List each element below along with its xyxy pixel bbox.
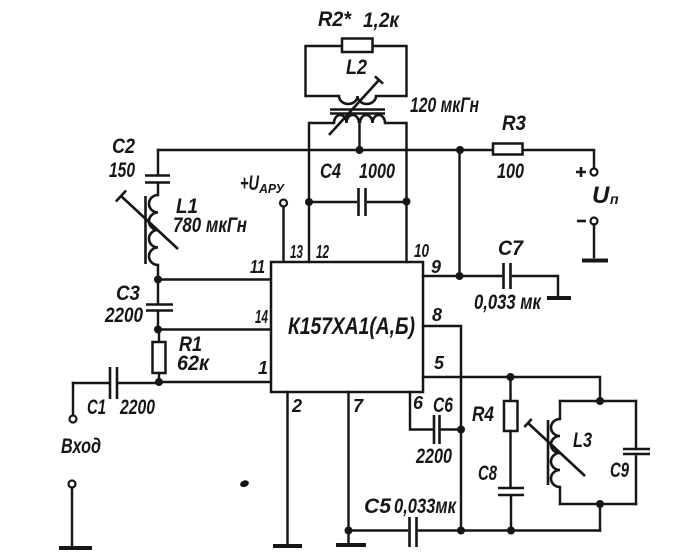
svg-text:C4: C4 xyxy=(320,160,341,183)
svg-text:5: 5 xyxy=(434,353,445,373)
transformer L2 secondary xyxy=(309,94,479,150)
wire pin 7 xyxy=(347,392,349,543)
resistor R2 xyxy=(306,8,407,96)
transformer L2 primary xyxy=(306,56,407,104)
ground pin 2 xyxy=(273,544,302,548)
capacitor C7 xyxy=(460,237,559,314)
svg-text:Вход: Вход xyxy=(61,435,101,458)
node C6 xyxy=(457,426,465,434)
svg-text:АРУ: АРУ xyxy=(258,181,285,196)
wire pin 11 xyxy=(158,278,271,280)
svg-text:C2: C2 xyxy=(112,135,135,158)
svg-text:14: 14 xyxy=(255,307,268,327)
svg-text:1000: 1000 xyxy=(359,160,395,183)
wire bus to tank xyxy=(599,504,601,531)
svg-text:C9: C9 xyxy=(610,459,629,482)
svg-text:8: 8 xyxy=(432,305,442,325)
svg-text:9: 9 xyxy=(431,257,441,277)
wire tank top xyxy=(560,400,636,402)
wire pin 8 xyxy=(423,326,461,531)
transformer adjust arrow xyxy=(329,76,383,135)
wire pin 6 stub xyxy=(410,392,432,430)
capacitor C1 xyxy=(73,367,159,419)
svg-text:R2*: R2* xyxy=(318,8,352,31)
capacitor C3 xyxy=(104,280,173,330)
svg-text:2200: 2200 xyxy=(104,304,143,327)
terminal +Uару xyxy=(240,172,287,262)
node C4 right xyxy=(403,198,411,206)
svg-text:2200: 2200 xyxy=(119,396,155,419)
printing speck xyxy=(239,479,250,488)
svg-text:12: 12 xyxy=(316,242,329,262)
svg-text:0,033мк: 0,033мк xyxy=(394,495,457,518)
node pin 7 / C5 xyxy=(345,527,353,535)
input terminal Вход xyxy=(61,383,101,458)
wire pin 2 xyxy=(286,392,288,544)
terminal -Uп xyxy=(577,218,598,258)
svg-text:780 мкГн: 780 мкГн xyxy=(173,214,247,237)
terminal +Uп xyxy=(576,167,619,209)
op-amp U1 К157ХА1 xyxy=(271,262,423,392)
wire pin 10 / C4 right / L2 secondary right xyxy=(405,123,407,262)
inductor L3 xyxy=(524,401,592,504)
resistor R4 xyxy=(472,377,518,487)
svg-text:L3: L3 xyxy=(573,429,592,452)
svg-text:U: U xyxy=(592,182,610,209)
svg-text:C1: C1 xyxy=(87,396,106,419)
wire pin 12 / C4 left / L2 secondary left xyxy=(308,123,310,262)
svg-text:100: 100 xyxy=(497,160,524,183)
capacitor C5 xyxy=(349,495,601,547)
svg-text:C3: C3 xyxy=(116,282,140,305)
svg-text:120 мкГн: 120 мкГн xyxy=(410,94,479,117)
input ground terminal xyxy=(69,481,76,547)
wire pin 5 xyxy=(423,377,600,401)
svg-text:150: 150 xyxy=(109,159,135,182)
svg-text:R4: R4 xyxy=(472,403,494,426)
svg-text:1: 1 xyxy=(258,358,268,378)
wire bus to pin9 vertical xyxy=(458,150,460,276)
svg-text:2200: 2200 xyxy=(415,445,452,468)
svg-text:C6: C6 xyxy=(433,394,453,417)
node pin 9 xyxy=(456,272,464,280)
capacitor C8 xyxy=(478,462,524,531)
svg-text:6: 6 xyxy=(413,393,424,413)
svg-text:7: 7 xyxy=(353,396,364,416)
node L1/C3/pin11 xyxy=(154,276,162,284)
capacitor C2 xyxy=(109,135,170,195)
wire top supply bus xyxy=(158,150,594,169)
svg-text:R3: R3 xyxy=(502,112,526,135)
svg-text:L2: L2 xyxy=(346,56,367,79)
node bottom bus pin8 branch xyxy=(457,527,465,535)
inductor L1 xyxy=(116,191,247,280)
node tank top xyxy=(596,397,604,405)
svg-text:п: п xyxy=(610,191,619,207)
transformer core xyxy=(330,110,385,114)
svg-text:К157ХА1(А,Б): К157ХА1(А,Б) xyxy=(288,313,415,340)
wire pin 1 xyxy=(159,381,271,383)
node C4 left xyxy=(305,198,313,206)
svg-text:C8: C8 xyxy=(478,462,497,485)
node R4 top xyxy=(507,373,515,381)
node tank bottom xyxy=(596,500,604,508)
wire pin 14 xyxy=(158,328,271,330)
svg-text:C5: C5 xyxy=(364,495,391,518)
svg-text:1,2к: 1,2к xyxy=(363,9,400,32)
node transformer centre tap on bus xyxy=(356,146,364,154)
capacitor C4 xyxy=(309,160,407,216)
capacitor C6 xyxy=(415,394,461,468)
svg-text:62к: 62к xyxy=(177,352,210,375)
svg-text:11: 11 xyxy=(250,257,265,277)
svg-text:10: 10 xyxy=(414,241,429,261)
ground C7 xyxy=(547,296,571,300)
svg-text:2: 2 xyxy=(291,396,302,416)
node C3/R1/pin14 xyxy=(154,326,162,334)
svg-text:0,033 мк: 0,033 мк xyxy=(474,291,542,314)
resistor R1 xyxy=(153,330,211,382)
node R1/C1/pin1 xyxy=(155,378,163,386)
svg-text:13: 13 xyxy=(290,242,303,262)
svg-text:C7: C7 xyxy=(498,237,524,260)
resistor R3 xyxy=(493,112,526,183)
ground minus terminal xyxy=(582,259,608,263)
ground input xyxy=(59,546,92,550)
capacitor C9 xyxy=(610,401,650,504)
wire C2 top lead xyxy=(157,150,159,174)
ground pin 7 xyxy=(336,543,366,547)
svg-text:+U: +U xyxy=(240,172,260,195)
node bottom bus C8 xyxy=(507,527,515,535)
wire tank bottom xyxy=(560,503,636,505)
wire pin 9 xyxy=(423,275,460,277)
node bus / R3 / pin9 branch xyxy=(456,146,464,154)
